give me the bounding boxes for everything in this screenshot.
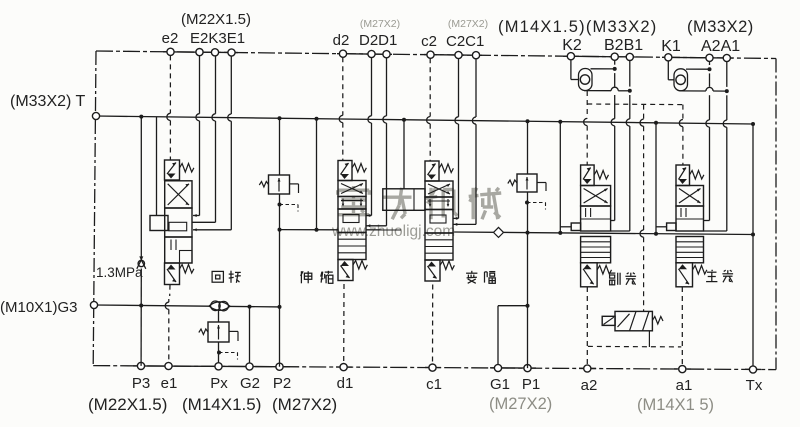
port C1 <box>472 52 479 59</box>
valve V5 spring top <box>690 171 704 180</box>
wire pilot return (dashed) <box>588 345 681 348</box>
valve V5 center body <box>676 206 704 231</box>
wire V1 feed from T <box>156 117 158 216</box>
svg-text:B2B1: B2B1 <box>604 37 643 54</box>
junction dot V5 feed at bus <box>654 232 658 236</box>
wire e2 pilot line (dashed) <box>167 55 171 160</box>
junction dot P2 at T <box>278 116 282 120</box>
label (M22X1.5) <box>181 11 251 28</box>
wire D2 riser <box>368 58 372 216</box>
wire V4 port stub upper <box>611 220 615 222</box>
wire B2 riser <box>611 60 615 220</box>
valve V2 position box crossed <box>338 181 366 197</box>
valve V3 center body <box>425 210 453 234</box>
junction dot P3 at G3 <box>139 304 143 308</box>
junction dot P1 at T <box>526 119 530 123</box>
label e2 <box>162 30 179 47</box>
junction dot B1 <box>628 89 632 93</box>
port K2 <box>567 53 574 60</box>
port E2 <box>196 49 203 56</box>
label section 主卷 <box>706 270 733 283</box>
junction dot G2 at G3 <box>248 305 252 309</box>
wire K1 capsule to A2 <box>686 68 710 70</box>
valve V3 pilot cap top <box>425 161 439 181</box>
junction dot B2 <box>613 67 617 71</box>
label P3 <box>132 375 150 392</box>
svg-text:G1: G1 <box>490 376 510 393</box>
port G1 <box>494 364 501 371</box>
wire P2 riser lower <box>279 307 281 367</box>
svg-text:(M22X1.5): (M22X1.5) <box>181 11 251 28</box>
svg-text:(M27X2): (M27X2) <box>272 395 337 414</box>
valve V4 center body <box>581 206 611 231</box>
port D1 <box>383 51 390 58</box>
valve V5 left tab <box>667 223 676 231</box>
valve V4 pilot cap top <box>581 165 595 186</box>
label e1 <box>161 375 178 392</box>
wire T rail <box>96 116 753 124</box>
wire Px lower <box>218 342 220 363</box>
wire P3 lower <box>140 269 142 366</box>
wire P1 riser upper <box>527 121 529 174</box>
wire V5 port stub lower <box>704 230 727 232</box>
wire V5 port stub upper <box>704 220 710 222</box>
port Tx <box>749 366 756 373</box>
label G1 <box>490 376 510 393</box>
wire V2 port stub upper <box>366 214 372 217</box>
wire A2 riser <box>706 61 710 220</box>
port e1 <box>165 362 172 369</box>
label section 变幅 <box>466 271 495 284</box>
svg-text:a1: a1 <box>676 377 693 394</box>
svg-text:www.zhuoligj.com: www.zhuoligj.com <box>331 223 455 240</box>
wire Tx riser <box>752 124 754 366</box>
svg-text:A2A1: A2A1 <box>701 38 740 55</box>
wire P1 riser mid <box>527 192 529 368</box>
wire K2 capsule to B1 <box>584 87 630 91</box>
wire P2 to V2 feed link <box>280 229 339 231</box>
wire d2 pilot line (dashed) <box>339 57 343 160</box>
label section 副卷 <box>609 273 636 285</box>
solenoid valve SV <box>602 311 663 330</box>
label section 回转 <box>212 271 241 283</box>
wire V5 feed from T <box>655 123 657 234</box>
port D2 <box>368 50 375 57</box>
svg-text:K1: K1 <box>661 38 681 55</box>
wire V2 feed from T <box>316 119 318 231</box>
label P2 <box>273 375 291 392</box>
port G3 <box>90 301 97 308</box>
wire V2 port stub lower <box>366 224 387 227</box>
wire top line solid near A ports <box>662 56 733 59</box>
valve V3 lower body <box>425 233 453 260</box>
valve V4 position box crossed <box>581 186 611 207</box>
port B1 <box>626 53 633 60</box>
valve V3 position box crossed <box>425 181 453 197</box>
valve V4 lower body <box>581 237 611 263</box>
port c2 <box>427 51 434 58</box>
label c2 <box>421 33 437 50</box>
wire K2 pilot line (dashed) <box>584 91 588 165</box>
wire Px upper <box>218 311 220 323</box>
port e2 <box>167 48 174 55</box>
wire SV drain <box>648 331 650 347</box>
port P2 <box>276 363 283 370</box>
wire bottom line solid Tx <box>745 368 761 370</box>
counterbalance valve K1 <box>668 61 687 91</box>
wire a1 pilot line (dashed) <box>681 287 683 366</box>
label P1 <box>522 376 540 393</box>
wire P2 riser mid <box>279 194 281 307</box>
valve V2 lower body <box>338 233 366 260</box>
wire G3 rail <box>94 305 280 307</box>
port T <box>92 112 99 119</box>
port P3 <box>137 362 144 369</box>
valve V2 center body <box>338 209 366 233</box>
svg-text:E2K3E1: E2K3E1 <box>190 30 245 47</box>
label G2 <box>240 375 260 392</box>
valve V2 position box arrows <box>338 197 366 210</box>
relief valve R2 <box>508 174 546 210</box>
port c1 <box>429 364 436 371</box>
wire bottom line solid a2 <box>579 367 596 369</box>
svg-text:(M14X1.5): (M14X1.5) <box>182 395 261 414</box>
label a2 <box>581 377 598 394</box>
wire K1 pilot to SV (dashed) <box>640 105 644 312</box>
wire K3 riser <box>193 56 216 222</box>
valve V1 pilot cap bottom <box>165 263 180 285</box>
shuttle valve on G3 <box>209 301 230 311</box>
svg-text:(M10X1)G3: (M10X1)G3 <box>0 299 78 316</box>
valve V5 lower body <box>676 237 704 263</box>
port E1 <box>228 49 235 56</box>
label (M27X2) small right <box>448 18 488 30</box>
wire pilot crossover (dashed) <box>587 103 683 106</box>
junction dot V3 feed at T <box>402 118 406 122</box>
svg-text:(M33X2): (M33X2) <box>687 18 754 36</box>
counterbalance valve K2 <box>571 60 592 91</box>
wire top line solid near D ports <box>337 53 392 56</box>
svg-text:(M27X2): (M27X2) <box>448 18 488 30</box>
wire G2 riser <box>249 307 251 363</box>
wire top line solid near C ports <box>424 54 482 57</box>
svg-text:a2: a2 <box>581 377 598 394</box>
port a2 <box>584 365 591 372</box>
valve V1 center body <box>165 208 192 237</box>
wire K1 capsule to A1 <box>680 87 727 91</box>
junction dot V4 feed at T <box>558 120 562 124</box>
svg-text:e2: e2 <box>162 30 179 47</box>
svg-text:1.3MPa: 1.3MPa <box>96 265 143 280</box>
valve V3 pilot cap bottom <box>425 260 440 281</box>
wire V5 feed link <box>656 226 667 228</box>
label 1.3MPa <box>96 265 143 280</box>
wire carryover bus <box>454 232 754 235</box>
valve V3 spring top <box>439 164 453 173</box>
svg-text:D2D1: D2D1 <box>359 32 397 49</box>
wire D1 riser <box>383 58 387 226</box>
frame right border (dash-dot) <box>775 59 777 370</box>
label (M14X1.5)(M33X2) <box>498 18 658 36</box>
junction dot P1 at bus <box>526 231 530 235</box>
svg-text:c2: c2 <box>421 33 437 50</box>
label (M27X2) bottom right <box>489 395 552 413</box>
check valve on carryover bus <box>494 227 504 237</box>
wire V4 port stub lower <box>611 230 630 232</box>
port G2 <box>246 363 253 370</box>
wire c2 pilot line (dashed) <box>427 58 431 161</box>
valve V2 spring bottom <box>353 261 367 270</box>
wire e1 pilot line (dashed) <box>165 285 170 363</box>
svg-text:(M14X1.5)(M33X2): (M14X1.5)(M33X2) <box>498 18 658 36</box>
valve V1 pilot cap top <box>165 160 180 180</box>
valve V2 pilot cap top <box>338 161 352 181</box>
label (M14X1 5) bottom right <box>637 396 714 414</box>
svg-text:(M33X2) T: (M33X2) T <box>10 93 86 110</box>
label d2 <box>333 32 350 49</box>
svg-text:(M22X1.5): (M22X1.5) <box>88 395 167 414</box>
wire V2 carryover to S3 <box>366 229 401 231</box>
relief valve R1 <box>259 175 298 212</box>
junction dot S2 feed <box>315 228 319 232</box>
port a1 <box>679 366 686 373</box>
svg-text:C2C1: C2C1 <box>446 33 484 50</box>
svg-text:P2: P2 <box>273 375 291 392</box>
wire A1 riser <box>723 62 727 231</box>
valve V5 pilot cap top <box>676 165 690 186</box>
label C2C1 <box>446 33 484 50</box>
port B2 <box>611 53 618 60</box>
junction dot V4 feed at bus <box>558 231 562 235</box>
valve V1 spring bottom <box>180 265 194 274</box>
label (M27X2) bottom <box>272 395 337 414</box>
label K2 <box>562 37 582 54</box>
valve V2 pilot cap bottom <box>338 260 353 281</box>
junction dot V5 feed at T <box>654 121 658 125</box>
label (M33X2) T <box>10 93 86 110</box>
svg-text:G2: G2 <box>240 375 260 392</box>
label B2B1 <box>604 37 643 54</box>
svg-text:P1: P1 <box>522 376 540 393</box>
label (M10X1)G3 <box>0 299 78 316</box>
valve V4 pilot cap bottom <box>581 263 598 287</box>
label (M14X1.5) bottom <box>182 395 261 414</box>
wire G1 riser <box>497 306 499 365</box>
wire top line solid near B ports <box>563 55 636 58</box>
label (M33X2) right <box>687 18 754 36</box>
wire P3 upper <box>140 117 142 257</box>
valve V1 position box crossed <box>165 181 192 208</box>
junction dot Tx at bus <box>751 233 755 237</box>
label d1 <box>337 375 354 392</box>
junction dot A2 <box>708 67 712 71</box>
valve V4 left tab <box>571 223 580 231</box>
junction dot P3 at T <box>139 115 143 119</box>
label A2A1 <box>701 38 740 55</box>
valve V5 spring bottom <box>693 266 707 275</box>
svg-text:Px: Px <box>210 375 228 392</box>
wire bottom line solid left <box>133 365 290 368</box>
port A1 <box>723 54 730 61</box>
valve V3 position box arrows <box>425 197 453 210</box>
valve V3 spring bottom <box>440 261 454 270</box>
port P1 <box>524 365 531 372</box>
svg-text:c1: c1 <box>426 376 442 393</box>
port Px <box>215 363 222 370</box>
wire K2 capsule to B2 <box>591 68 615 70</box>
wire d1 pilot line (dashed) <box>343 284 345 364</box>
wire V4 feed from T <box>559 122 561 233</box>
valve V1 lower body <box>165 237 192 263</box>
wire bottom line solid G1P1 <box>490 367 536 369</box>
wire C1 riser <box>472 59 476 225</box>
junction dot P2-link <box>278 228 282 232</box>
label a1 <box>676 377 693 394</box>
svg-text:P3: P3 <box>132 375 150 392</box>
valve V4 spring top <box>594 171 608 180</box>
port d1 <box>340 364 347 371</box>
valve V5 position box crossed <box>676 186 704 207</box>
svg-text:(M27X2): (M27X2) <box>360 18 400 30</box>
label Tx <box>746 377 763 394</box>
svg-text:e1: e1 <box>161 375 178 392</box>
label K1 <box>661 38 681 55</box>
junction dot V2 feed at T <box>315 117 319 121</box>
valve V1 left tab <box>150 216 168 231</box>
label section 伸缩 <box>301 271 333 284</box>
wire V3 feed from T <box>403 120 405 189</box>
frame left border (dash-dot) <box>93 51 96 366</box>
valve V5 pilot cap bottom <box>676 263 693 287</box>
check valve 1.3MPa <box>137 256 146 268</box>
junction dot A1 <box>725 89 729 93</box>
wire V3 port stub upper <box>453 217 459 220</box>
wire bottom line solid a1 <box>674 368 691 370</box>
label D2D1 <box>359 32 397 49</box>
svg-text:d1: d1 <box>337 375 354 392</box>
valve V4 spring bottom <box>597 266 611 275</box>
watermark <box>331 186 501 240</box>
svg-text:(M27X2): (M27X2) <box>489 395 552 413</box>
frame bottom boundary line (dash-dot) <box>93 366 776 370</box>
port C2 <box>455 51 462 58</box>
svg-text:d2: d2 <box>333 32 350 49</box>
wire V3 port stub lower <box>453 223 476 226</box>
svg-text:Tx: Tx <box>746 377 763 394</box>
wire c1 pilot line (dashed) <box>432 285 434 365</box>
junction dot P2 at G3 end <box>278 305 282 309</box>
wire top line solid near E ports <box>163 51 238 54</box>
wire P2 riser upper <box>279 118 281 175</box>
svg-text:K2: K2 <box>562 37 582 54</box>
wire bottom line solid c1 <box>425 366 441 368</box>
svg-text:(M14X1 5): (M14X1 5) <box>637 396 714 414</box>
port A2 <box>706 54 713 61</box>
valve V2 spring top <box>352 164 366 173</box>
junction dot G1-P1 <box>526 304 530 308</box>
label (M27X2) small left <box>360 18 400 30</box>
port K1 <box>665 54 672 61</box>
wire V4 feed link <box>560 226 571 228</box>
wire E2 riser <box>193 56 200 217</box>
wire bottom line solid d1 <box>336 366 352 368</box>
junction dot Tx at T <box>751 122 755 126</box>
label (M22X1.5) bottom <box>88 395 167 414</box>
wire E1 riser <box>193 56 231 231</box>
label E2K3E1 <box>190 30 245 47</box>
wire G1-P1 link <box>498 305 528 307</box>
wire a2 pilot line (dashed) <box>586 287 588 365</box>
relief valve R3 (Px) <box>199 322 238 360</box>
frame top boundary line (dash-dot) <box>96 51 776 59</box>
wire K1 pilot line (dashed) <box>679 105 683 165</box>
label Px <box>210 375 228 392</box>
port d2 <box>339 50 346 57</box>
valve V1 spring top <box>180 164 194 173</box>
wire C2 riser <box>455 59 459 219</box>
wire B1 riser <box>626 61 630 232</box>
port K3 <box>211 49 218 56</box>
valve V3 left wing <box>383 189 425 211</box>
label c1 <box>426 376 442 393</box>
